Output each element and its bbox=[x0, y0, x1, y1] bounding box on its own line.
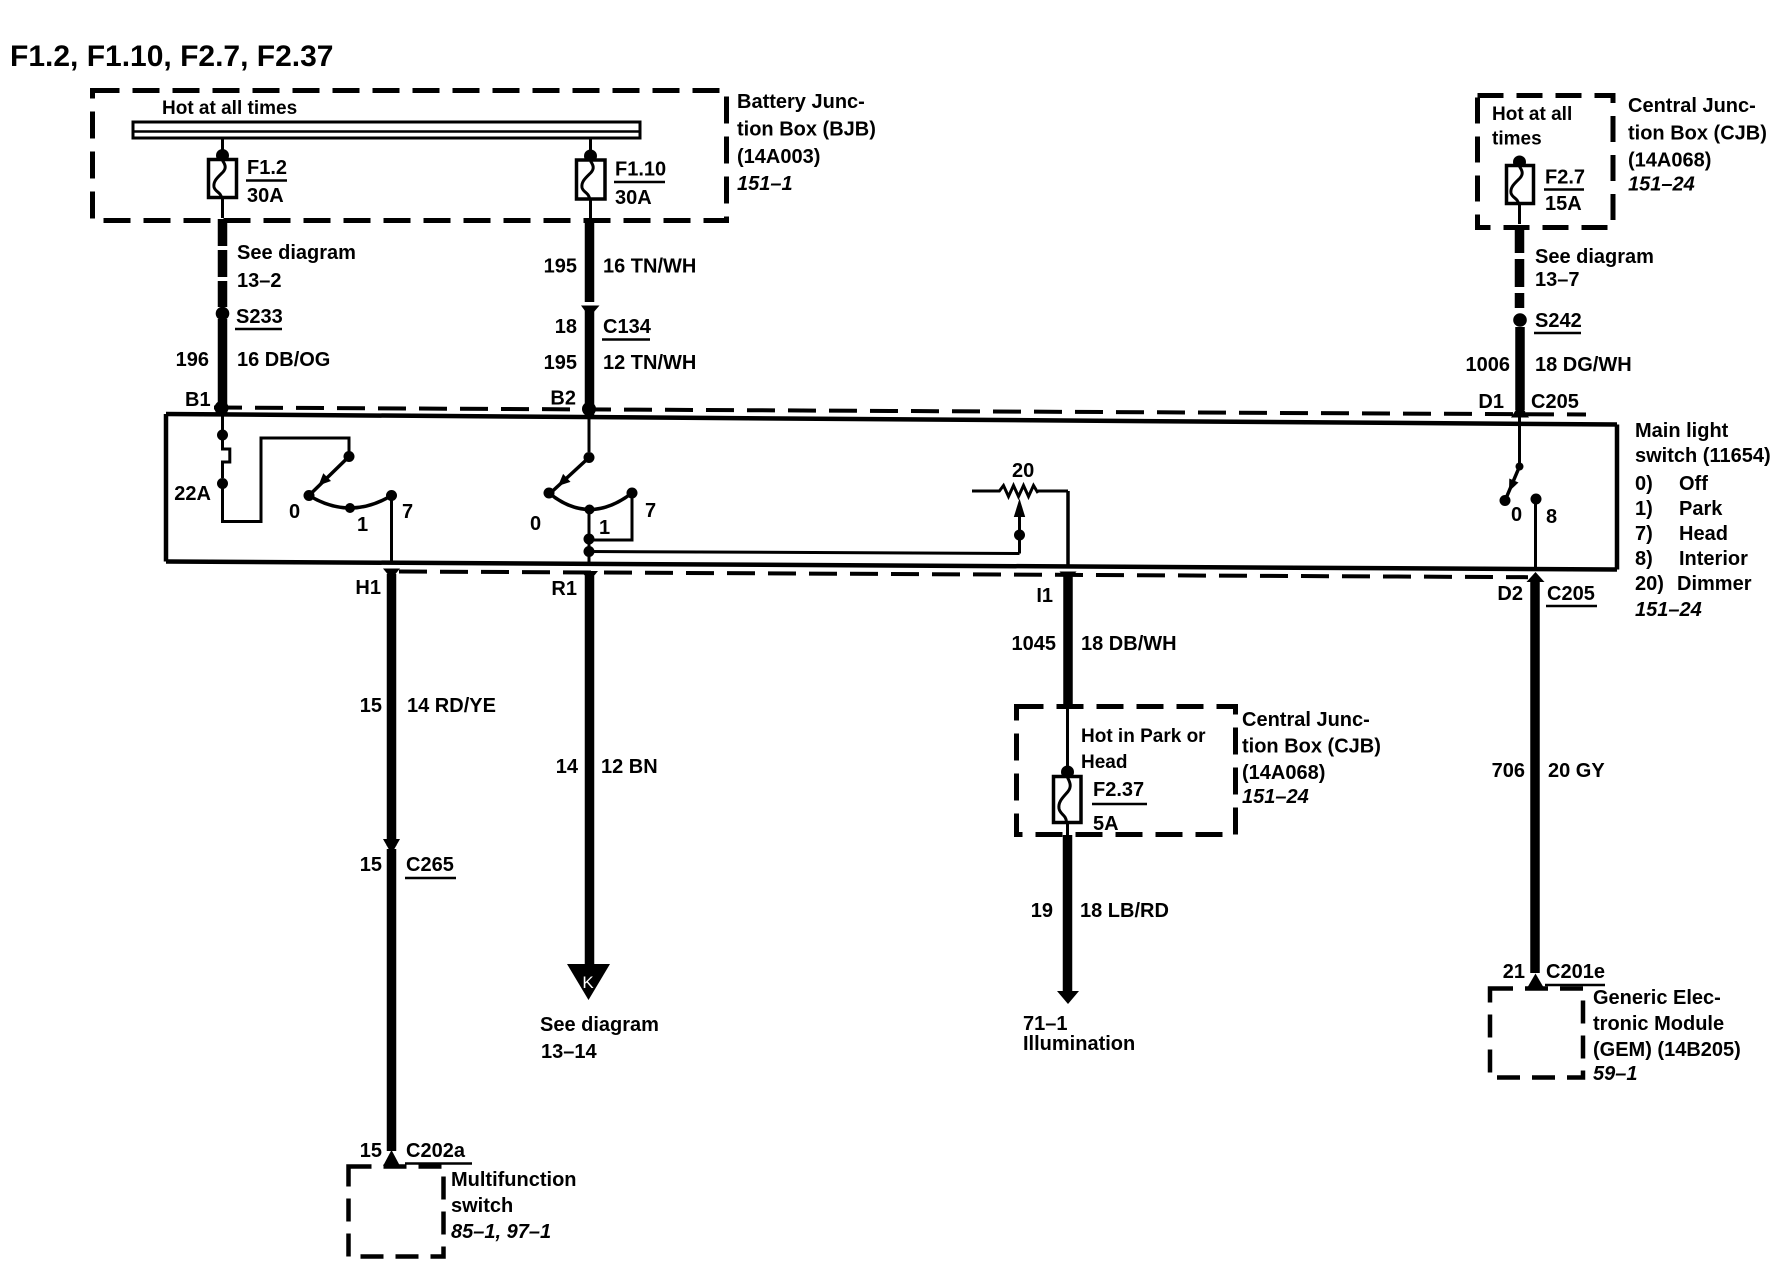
svg-text:195: 195 bbox=[544, 352, 577, 374]
svg-text:151–24: 151–24 bbox=[1635, 599, 1702, 621]
wire 14 12 BN (R1 down) bbox=[585, 576, 595, 964]
svg-text:5A: 5A bbox=[1093, 813, 1119, 835]
label Central Junction Box (CJB) (14A068) 151-24 (lower) bbox=[1242, 709, 1381, 808]
svg-text:H1: H1 bbox=[355, 577, 381, 599]
Multifunction switch dashed box bbox=[349, 1167, 444, 1257]
svg-text:tion Box (CJB): tion Box (CJB) bbox=[1628, 123, 1767, 145]
svg-text:Park: Park bbox=[1679, 498, 1723, 520]
svg-text:30A: 30A bbox=[247, 185, 284, 207]
svg-text:C201e: C201e bbox=[1546, 961, 1605, 983]
note See diagram 13-2 bbox=[237, 242, 356, 292]
wire contact 7 loop to junction bbox=[594, 493, 632, 540]
svg-text:See diagram: See diagram bbox=[237, 242, 356, 264]
svg-text:I1: I1 bbox=[1036, 585, 1053, 607]
label S233 bbox=[235, 306, 283, 329]
circuit breaker 22A bbox=[223, 439, 230, 478]
svg-text:tronic Module: tronic Module bbox=[1593, 1013, 1724, 1035]
wire contact 7 to H1 bbox=[390, 496, 393, 565]
connector C134 (in-line arrow) bbox=[581, 306, 600, 318]
contact 7 dot (switch 1) bbox=[386, 490, 397, 501]
rheostat wiper arrow bbox=[1014, 499, 1025, 554]
wire 706 20 GY (D2 down) bbox=[1530, 578, 1540, 973]
svg-text:Off: Off bbox=[1679, 473, 1708, 495]
svg-text:F1.10: F1.10 bbox=[615, 159, 666, 181]
label 21 / C201e bbox=[1503, 961, 1605, 985]
svg-text:(14A068): (14A068) bbox=[1628, 150, 1711, 172]
connector arrow at I1 bbox=[1060, 572, 1077, 583]
label 0 (switch 3) bbox=[1511, 504, 1522, 526]
svg-text:85–1, 97–1: 85–1, 97–1 bbox=[451, 1221, 551, 1243]
contact 8 dot (switch 3) bbox=[1531, 494, 1542, 505]
svg-text:21: 21 bbox=[1503, 961, 1525, 983]
svg-text:C202a: C202a bbox=[406, 1140, 466, 1162]
svg-text:71–1: 71–1 bbox=[1023, 1013, 1068, 1035]
Central Junction Box (CJB) top dashed enclosure bbox=[1478, 96, 1614, 228]
pin B2 bbox=[550, 388, 576, 410]
svg-text:151–1: 151–1 bbox=[737, 173, 793, 195]
svg-text:0: 0 bbox=[530, 513, 541, 535]
wire 196 16 DB/OG (S233 to B1) bbox=[218, 319, 228, 415]
label 15 / C202a bbox=[360, 1140, 472, 1164]
switch 3 arm with arrow bbox=[1506, 467, 1520, 500]
junction dot at fuse F1.10 top bbox=[584, 150, 597, 163]
pin D2 bbox=[1497, 583, 1523, 605]
net label Hot at all times (CJB) bbox=[1492, 104, 1572, 150]
junction dot above circuit breaker bbox=[217, 430, 228, 441]
label 0 (switch 1) bbox=[289, 501, 300, 523]
note See diagram 13-7 bbox=[1535, 246, 1654, 291]
svg-text:(GEM) (14B205): (GEM) (14B205) bbox=[1593, 1039, 1741, 1061]
svg-text:Illumination: Illumination bbox=[1023, 1033, 1135, 1055]
fuse F2.37 bbox=[1054, 777, 1082, 823]
junction dot at fuse F2.7 top bbox=[1513, 156, 1526, 169]
svg-text:0: 0 bbox=[289, 501, 300, 523]
connector label C205 (bottom) bbox=[1546, 583, 1597, 606]
label S242 bbox=[1534, 310, 1582, 333]
svg-text:C205: C205 bbox=[1547, 583, 1595, 605]
svg-text:Main light: Main light bbox=[1635, 420, 1729, 442]
wire label 706 / 20 GY bbox=[1492, 760, 1606, 782]
off-page arrow to illumination bbox=[1057, 991, 1079, 1004]
label Generic Electronic Module (GEM) (14B205) 59-1 bbox=[1593, 987, 1741, 1085]
wire fuse F1.10 to BJB border bbox=[589, 199, 592, 218]
splice S242 bbox=[1513, 313, 1527, 327]
svg-text:12 BN: 12 BN bbox=[601, 756, 658, 778]
svg-text:Generic Elec-: Generic Elec- bbox=[1593, 987, 1721, 1009]
wire fuse F2.7 output (dashed segment to S242) bbox=[1515, 225, 1525, 308]
label 20 (dimmer terminal) bbox=[1012, 460, 1034, 482]
svg-text:7): 7) bbox=[1635, 523, 1653, 545]
fuse F1.10 bbox=[577, 160, 606, 199]
svg-text:16 TN/WH: 16 TN/WH bbox=[603, 256, 696, 278]
wire 195 12 TN/WH (C134 to B2) bbox=[585, 308, 595, 419]
svg-text:15: 15 bbox=[360, 854, 382, 876]
svg-text:1: 1 bbox=[357, 514, 368, 536]
fuse F1.2 bbox=[209, 160, 237, 199]
wire contact 8 to D2 bbox=[1534, 499, 1537, 570]
title F1.2, F1.10, F2.7, F2.37 bbox=[10, 40, 334, 73]
Generic Electronic Module (GEM) dashed box bbox=[1490, 989, 1583, 1078]
svg-text:151–24: 151–24 bbox=[1628, 174, 1695, 196]
svg-text:Hot in Park or: Hot in Park or bbox=[1081, 726, 1206, 747]
svg-text:C134: C134 bbox=[603, 316, 652, 338]
junction dot B1 bbox=[215, 401, 229, 415]
svg-text:8: 8 bbox=[1546, 506, 1557, 528]
wire breaker to headlamp switch feed bbox=[223, 438, 350, 522]
svg-text:16 DB/OG: 16 DB/OG bbox=[237, 349, 330, 371]
wire B2 into switch bbox=[588, 414, 591, 452]
svg-text:1045: 1045 bbox=[1012, 633, 1057, 655]
svg-text:Hot at all: Hot at all bbox=[1492, 104, 1572, 125]
pin B1 bbox=[185, 389, 211, 411]
svg-text:Hot at all times: Hot at all times bbox=[162, 98, 297, 119]
label Battery Junction Box (BJB) (14A003) 151-1 bbox=[737, 91, 876, 195]
connector arrow at C202a bbox=[383, 1150, 400, 1166]
svg-text:20: 20 bbox=[1012, 460, 1034, 482]
svg-text:F2.37: F2.37 bbox=[1093, 779, 1144, 801]
wire fuse F1.10 output 195 16 TN/WH bbox=[585, 218, 595, 302]
svg-text:Dimmer: Dimmer bbox=[1677, 573, 1752, 595]
svg-text:B1: B1 bbox=[185, 389, 211, 411]
svg-text:Head: Head bbox=[1679, 523, 1728, 545]
svg-text:1006: 1006 bbox=[1466, 354, 1511, 376]
svg-text:0): 0) bbox=[1635, 473, 1653, 495]
wire bus bar to fuse F1.10 bbox=[589, 137, 592, 155]
wire fuse F1.2 to BJB border bbox=[221, 198, 224, 219]
note See diagram 13-14 bbox=[540, 1014, 659, 1063]
pivot dot switch 2 bbox=[584, 452, 595, 463]
connector arrow at R1 bbox=[581, 571, 598, 582]
label 18 / C134 bbox=[555, 316, 652, 340]
wire C265 to multifunction switch bbox=[387, 849, 397, 1151]
pin I1 bbox=[1036, 585, 1053, 607]
wire label 195 / 12 TN/WH bbox=[544, 352, 697, 374]
svg-text:D2: D2 bbox=[1497, 583, 1523, 605]
svg-text:S242: S242 bbox=[1535, 310, 1582, 332]
label 8 (switch 3) bbox=[1546, 506, 1557, 528]
wire 19 18 LB/RD (F2.37 to illumination) bbox=[1066, 822, 1069, 835]
svg-text:19: 19 bbox=[1031, 900, 1053, 922]
contact arc switch 2 bbox=[549, 493, 632, 510]
svg-text:151–24: 151–24 bbox=[1242, 786, 1309, 808]
pin D1 bbox=[1478, 391, 1504, 413]
svg-text:13–14: 13–14 bbox=[541, 1041, 597, 1063]
connector arrow at C201e bbox=[1527, 974, 1545, 990]
svg-text:(14A068): (14A068) bbox=[1242, 762, 1325, 784]
svg-text:C265: C265 bbox=[406, 854, 454, 876]
value label F1.10 / 30A bbox=[614, 159, 666, 210]
label 7 (switch 1) bbox=[402, 501, 413, 523]
contact 1 dot (switch 2) bbox=[585, 505, 595, 515]
junction dot dimmer branch bbox=[584, 546, 595, 557]
pin R1 bbox=[551, 578, 577, 600]
wire B1 into switch bbox=[221, 414, 224, 430]
value label F2.7 / 15A bbox=[1544, 167, 1585, 216]
wire label 196 / 16 DB/OG bbox=[176, 349, 331, 371]
svg-text:Multifunction: Multifunction bbox=[451, 1169, 577, 1191]
svg-text:30A: 30A bbox=[615, 187, 652, 209]
contact 0 dot (switch 3) bbox=[1500, 495, 1511, 506]
svg-text:196: 196 bbox=[176, 349, 209, 371]
svg-text:8): 8) bbox=[1635, 548, 1653, 570]
svg-text:tion Box (BJB): tion Box (BJB) bbox=[737, 119, 876, 141]
svg-text:Interior: Interior bbox=[1679, 548, 1748, 570]
connector label C205 (top) bbox=[1531, 391, 1579, 413]
svg-text:(14A003): (14A003) bbox=[737, 146, 820, 168]
wire fuse F1.2 output (dashed segment to S233) bbox=[218, 219, 228, 307]
label 1 (switch 2) bbox=[599, 517, 610, 539]
svg-text:13–2: 13–2 bbox=[237, 270, 282, 292]
net label Hot at all times (BJB) bbox=[162, 98, 297, 119]
wire 1006 18 DG/WH (S242 to D1) bbox=[1515, 327, 1525, 410]
wire label 15 / 14 RD/YE bbox=[360, 695, 496, 717]
splice S233 bbox=[216, 307, 230, 321]
svg-text:S233: S233 bbox=[236, 306, 283, 328]
junction dot on wiper bbox=[1014, 530, 1025, 541]
label 0 (switch 2) bbox=[530, 513, 541, 535]
main light switch solid box bbox=[166, 414, 1617, 570]
pivot dot switch 3 bbox=[1516, 463, 1524, 471]
svg-text:13–7: 13–7 bbox=[1535, 269, 1580, 291]
rheostat 20 (dimmer resistor) bbox=[972, 486, 1068, 497]
value label F2.37 / 5A bbox=[1092, 779, 1147, 835]
svg-text:15: 15 bbox=[360, 1140, 382, 1162]
junction dot at fuse F1.2 top bbox=[216, 149, 229, 162]
svg-text:F1.2, F1.10, F2.7, F2.37: F1.2, F1.10, F2.7, F2.37 bbox=[10, 40, 334, 73]
label Main light switch (11654) legend bbox=[1635, 420, 1771, 621]
wire into fuse F2.37 bbox=[1066, 708, 1069, 770]
svg-text:See diagram: See diagram bbox=[540, 1014, 659, 1036]
svg-text:Central Junc-: Central Junc- bbox=[1628, 95, 1756, 117]
svg-text:D1: D1 bbox=[1478, 391, 1504, 413]
label Multifunction switch 85-1, 97-1 bbox=[451, 1169, 577, 1243]
svg-text:12 TN/WH: 12 TN/WH bbox=[603, 352, 696, 374]
wire label 19 / 18 LB/RD bbox=[1031, 900, 1169, 922]
svg-text:706: 706 bbox=[1492, 760, 1525, 782]
svg-text:times: times bbox=[1492, 129, 1542, 150]
pivot dot switch 1 bbox=[344, 451, 355, 462]
value label F1.2 / 30A bbox=[246, 157, 287, 207]
contact 0 dot (switch 2) bbox=[544, 488, 555, 499]
label Central Junction Box (CJB) (14A068) 151-24 bbox=[1628, 95, 1767, 196]
svg-text:Central Junc-: Central Junc- bbox=[1242, 709, 1370, 731]
svg-text:K: K bbox=[582, 973, 594, 992]
wire dimmer branch to rheostat wiper bbox=[589, 552, 1020, 554]
svg-text:18 DB/WH: 18 DB/WH bbox=[1081, 633, 1177, 655]
svg-text:B2: B2 bbox=[550, 388, 576, 410]
svg-text:59–1: 59–1 bbox=[1593, 1063, 1638, 1085]
svg-text:1): 1) bbox=[1635, 498, 1653, 520]
svg-text:Battery Junc-: Battery Junc- bbox=[737, 91, 865, 113]
Battery Junction Box (BJB) dashed enclosure bbox=[93, 91, 727, 221]
wire rheostat to I1 bbox=[1066, 491, 1070, 566]
svg-text:0: 0 bbox=[1511, 504, 1522, 526]
svg-text:22A: 22A bbox=[174, 483, 211, 505]
svg-text:15: 15 bbox=[360, 695, 382, 717]
svg-text:15A: 15A bbox=[1545, 193, 1582, 215]
contact arc switch 1 bbox=[309, 496, 392, 509]
svg-text:See diagram: See diagram bbox=[1535, 246, 1654, 268]
svg-text:1: 1 bbox=[599, 517, 610, 539]
connector C205 dashed line (bottom) bbox=[399, 572, 1528, 578]
connector arrow at H1 bbox=[383, 569, 400, 580]
label 1 (switch 1) bbox=[357, 514, 368, 536]
svg-text:R1: R1 bbox=[551, 578, 577, 600]
connector C205 dashed line (top) bbox=[214, 408, 1586, 415]
svg-text:7: 7 bbox=[402, 501, 413, 523]
svg-text:195: 195 bbox=[544, 256, 577, 278]
svg-text:20 GY: 20 GY bbox=[1548, 760, 1605, 782]
value label 22A bbox=[174, 483, 211, 505]
svg-text:C205: C205 bbox=[1531, 391, 1579, 413]
wire fuse F2.7 to CJB border bbox=[1518, 204, 1521, 225]
connector arrow at D2 (C205) bbox=[1527, 572, 1545, 582]
contact 0 dot (switch 1) bbox=[304, 490, 315, 501]
wire bus bar to fuse F1.2 bbox=[221, 137, 224, 155]
junction dot B2 bbox=[582, 402, 596, 416]
note 71-1 Illumination bbox=[1023, 1013, 1135, 1055]
wire label 195 / 16 TN/WH bbox=[544, 256, 697, 278]
wire label 1006 / 18 DG/WH bbox=[1466, 354, 1632, 376]
svg-text:F1.2: F1.2 bbox=[247, 157, 287, 179]
svg-text:7: 7 bbox=[645, 500, 656, 522]
connector arrow at D1 (C205) bbox=[1511, 404, 1529, 418]
Central Junction Box (CJB) lower dashed enclosure bbox=[1017, 707, 1236, 835]
off-page arrow K bbox=[567, 964, 610, 1000]
wire contact 1 down to R1 bbox=[588, 512, 591, 566]
label 7 (switch 2) bbox=[645, 500, 656, 522]
pin H1 bbox=[355, 577, 381, 599]
svg-text:F2.7: F2.7 bbox=[1545, 167, 1585, 189]
net label Hot in Park or Head bbox=[1081, 726, 1206, 773]
wire 15 14 RD/YE (H1 down) bbox=[387, 574, 397, 846]
contact 7 dot (switch 2) bbox=[627, 488, 638, 499]
junction dot loop (switch 2) bbox=[584, 534, 595, 545]
switch 2 arm with arrow bbox=[551, 458, 589, 493]
svg-text:14 RD/YE: 14 RD/YE bbox=[407, 695, 496, 717]
svg-text:tion Box (CJB): tion Box (CJB) bbox=[1242, 736, 1381, 758]
junction dot at fuse F2.37 top bbox=[1061, 766, 1074, 779]
fuse F2.7 bbox=[1507, 166, 1534, 205]
wire label 14 / 12 BN bbox=[556, 756, 658, 778]
wire D1 into dimmer switch bbox=[1518, 417, 1521, 463]
bus bar (hot feed) bbox=[133, 122, 640, 138]
svg-text:switch (11654): switch (11654) bbox=[1635, 445, 1771, 467]
junction dot below circuit breaker bbox=[217, 478, 228, 489]
svg-text:18 LB/RD: 18 LB/RD bbox=[1080, 900, 1169, 922]
svg-text:20): 20) bbox=[1635, 573, 1664, 595]
svg-text:18 DG/WH: 18 DG/WH bbox=[1535, 354, 1632, 376]
svg-text:switch: switch bbox=[451, 1195, 513, 1217]
wire 1045 18 DB/WH (I1 down) bbox=[1063, 576, 1073, 707]
contact 1 dot (switch 1) bbox=[345, 503, 355, 513]
svg-text:18: 18 bbox=[555, 316, 577, 338]
svg-text:14: 14 bbox=[556, 756, 579, 778]
connector C265 (in-line arrow) bbox=[383, 839, 400, 854]
label 15 / C265 bbox=[360, 854, 456, 878]
wire label 1045 / 18 DB/WH bbox=[1012, 633, 1177, 655]
svg-text:Head: Head bbox=[1081, 752, 1127, 773]
switch 1 arm with arrow bbox=[311, 457, 349, 494]
